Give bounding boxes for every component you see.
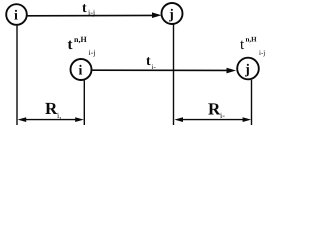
dimension line (under node j middle-right) (251, 80, 253, 125)
svg-text:i: i (79, 64, 83, 79)
svg-text:n,H: n,H (246, 36, 258, 44)
node j (middle-right) (237, 58, 259, 80)
svg-text:i-j: i-j (259, 49, 265, 57)
svg-text:i-: i- (152, 63, 157, 71)
svg-text:i-j: i-j (88, 8, 95, 17)
svg-text:i,: i, (57, 111, 61, 120)
dimension line (under node j top-right) (173, 25, 175, 126)
arrow i to j (middle) (92, 69, 228, 71)
svg-text:i-: i- (220, 111, 225, 120)
dimension line (left, under node i top-left) (16, 26, 18, 125)
svg-text:t: t (146, 54, 151, 69)
arrow i to j (top) (27, 14, 154, 16)
double arrow R_i (bottom-left) (22, 119, 79, 121)
dimension line (under node i middle) (83, 80, 85, 125)
svg-text:t: t (82, 1, 87, 16)
node i (middle) (71, 59, 92, 80)
svg-text:i: i (14, 9, 18, 24)
svg-text:t: t (68, 37, 73, 53)
svg-text:n,H: n,H (74, 35, 87, 44)
svg-text:j: j (168, 8, 174, 23)
node j (top-right) (162, 3, 183, 24)
double arrow R_j (bottom-right) (178, 119, 247, 121)
svg-text:j: j (244, 63, 250, 78)
svg-text:i-j: i-j (89, 48, 96, 57)
node i (top-left) (6, 4, 27, 25)
